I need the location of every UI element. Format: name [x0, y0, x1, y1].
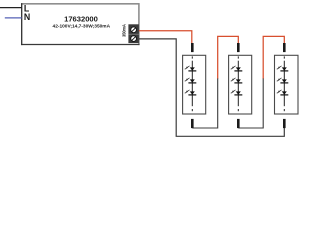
LM3 input connector pin: [283, 43, 286, 52]
LM3 series string wire: [283, 61, 285, 106]
LM3 LED D2: [277, 78, 289, 83]
LM2 input connector pin: [237, 43, 240, 52]
wire - return from driver along bottom to module LM3: [139, 39, 284, 136]
wire N input (blue): [5, 17, 22, 19]
LED module LM2 box: [229, 55, 252, 114]
LM3 LED D1: [277, 66, 289, 71]
wire link LM2 output to riser: [238, 78, 263, 128]
screw terminal + (pin 1): [131, 27, 137, 33]
LM2 feedthrough dash bottom: [237, 109, 239, 111]
wire link red riser to LM3 input: [263, 36, 284, 78]
svg-text:42-100V;14,7-30W;350mA: 42-100V;14,7-30W;350mA: [53, 24, 111, 30]
LM3 output connector pin: [283, 119, 286, 128]
LM1 LED D2: [185, 78, 197, 83]
LM1 output connector pin: [191, 119, 194, 128]
LM1 LED D1: [185, 66, 197, 71]
LM2 LED D3: [231, 90, 243, 95]
LM2 LED D2: [231, 78, 243, 83]
wire link red riser to LM2 input: [218, 36, 239, 78]
LED module LM1 box: [183, 55, 206, 114]
svg-text:N: N: [24, 12, 30, 22]
driver U1 box: [21, 3, 139, 45]
wire link LM1 output to riser: [192, 78, 217, 128]
LM1 feedthrough dash bottom: [191, 109, 193, 111]
screw terminal - (pin 2): [131, 36, 137, 42]
LM3 feedthrough dash top: [283, 56, 285, 58]
LM1 LED D3: [185, 90, 197, 95]
wire + red from driver to module LM1: [139, 31, 192, 44]
LM1 series string wire: [191, 61, 193, 106]
LM2 feedthrough dash top: [237, 56, 239, 58]
LM2 output connector pin: [237, 119, 240, 128]
wire L input: [0, 7, 22, 9]
output terminal block X1: [128, 24, 139, 43]
svg-text:350mA: 350mA: [122, 24, 127, 37]
LM3 feedthrough dash bottom: [283, 109, 285, 111]
svg-text:17632000: 17632000: [64, 14, 98, 23]
LM1 input connector pin: [191, 43, 194, 52]
LM3 LED D3: [277, 90, 289, 95]
LM2 series string wire: [237, 61, 239, 106]
LED module LM3 box: [275, 55, 299, 114]
LM2 LED D1: [231, 66, 243, 71]
LM1 feedthrough dash top: [191, 56, 193, 58]
